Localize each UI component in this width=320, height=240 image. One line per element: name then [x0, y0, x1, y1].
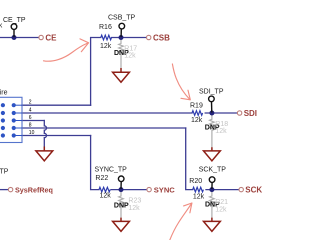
svg-text:12k: 12k: [100, 193, 112, 200]
svg-text:R16: R16: [99, 24, 112, 31]
svg-text:6: 6: [29, 115, 32, 121]
svg-text:CE: CE: [45, 33, 57, 42]
svg-text:R21: R21: [215, 199, 228, 206]
svg-text:SysRefReq: SysRefReq: [15, 185, 53, 194]
svg-text:12k: 12k: [191, 117, 203, 124]
svg-text:SCK: SCK: [245, 185, 262, 194]
svg-text:SYNC: SYNC: [154, 185, 176, 194]
svg-text:12k: 12k: [215, 206, 227, 213]
svg-text:12k: 12k: [128, 205, 140, 212]
svg-text:SDI: SDI: [244, 109, 257, 118]
svg-text:SCK_TP: SCK_TP: [199, 166, 227, 173]
svg-text:CSB: CSB: [153, 33, 170, 42]
svg-text:10: 10: [29, 130, 35, 136]
svg-text:R23: R23: [128, 198, 141, 205]
svg-text:12k: 12k: [100, 43, 112, 50]
svg-text:TP: TP: [0, 169, 9, 176]
svg-text:12k: 12k: [215, 128, 227, 135]
svg-text:12k: 12k: [124, 52, 136, 59]
svg-text:2: 2: [29, 100, 32, 106]
svg-text:R22: R22: [95, 175, 108, 182]
svg-text:SYNC_TP: SYNC_TP: [95, 167, 128, 174]
svg-text:CE_TP: CE_TP: [3, 17, 26, 24]
svg-text:4: 4: [29, 107, 32, 113]
svg-text:8: 8: [29, 122, 32, 128]
svg-text:R19: R19: [190, 103, 203, 110]
svg-text:R20: R20: [189, 178, 202, 185]
svg-text:ire: ire: [0, 90, 8, 97]
svg-text:CSB_TP: CSB_TP: [108, 15, 136, 22]
svg-text:DNP: DNP: [114, 203, 129, 210]
svg-text:12k: 12k: [193, 194, 205, 201]
svg-text:SDI_TP: SDI_TP: [199, 89, 224, 96]
